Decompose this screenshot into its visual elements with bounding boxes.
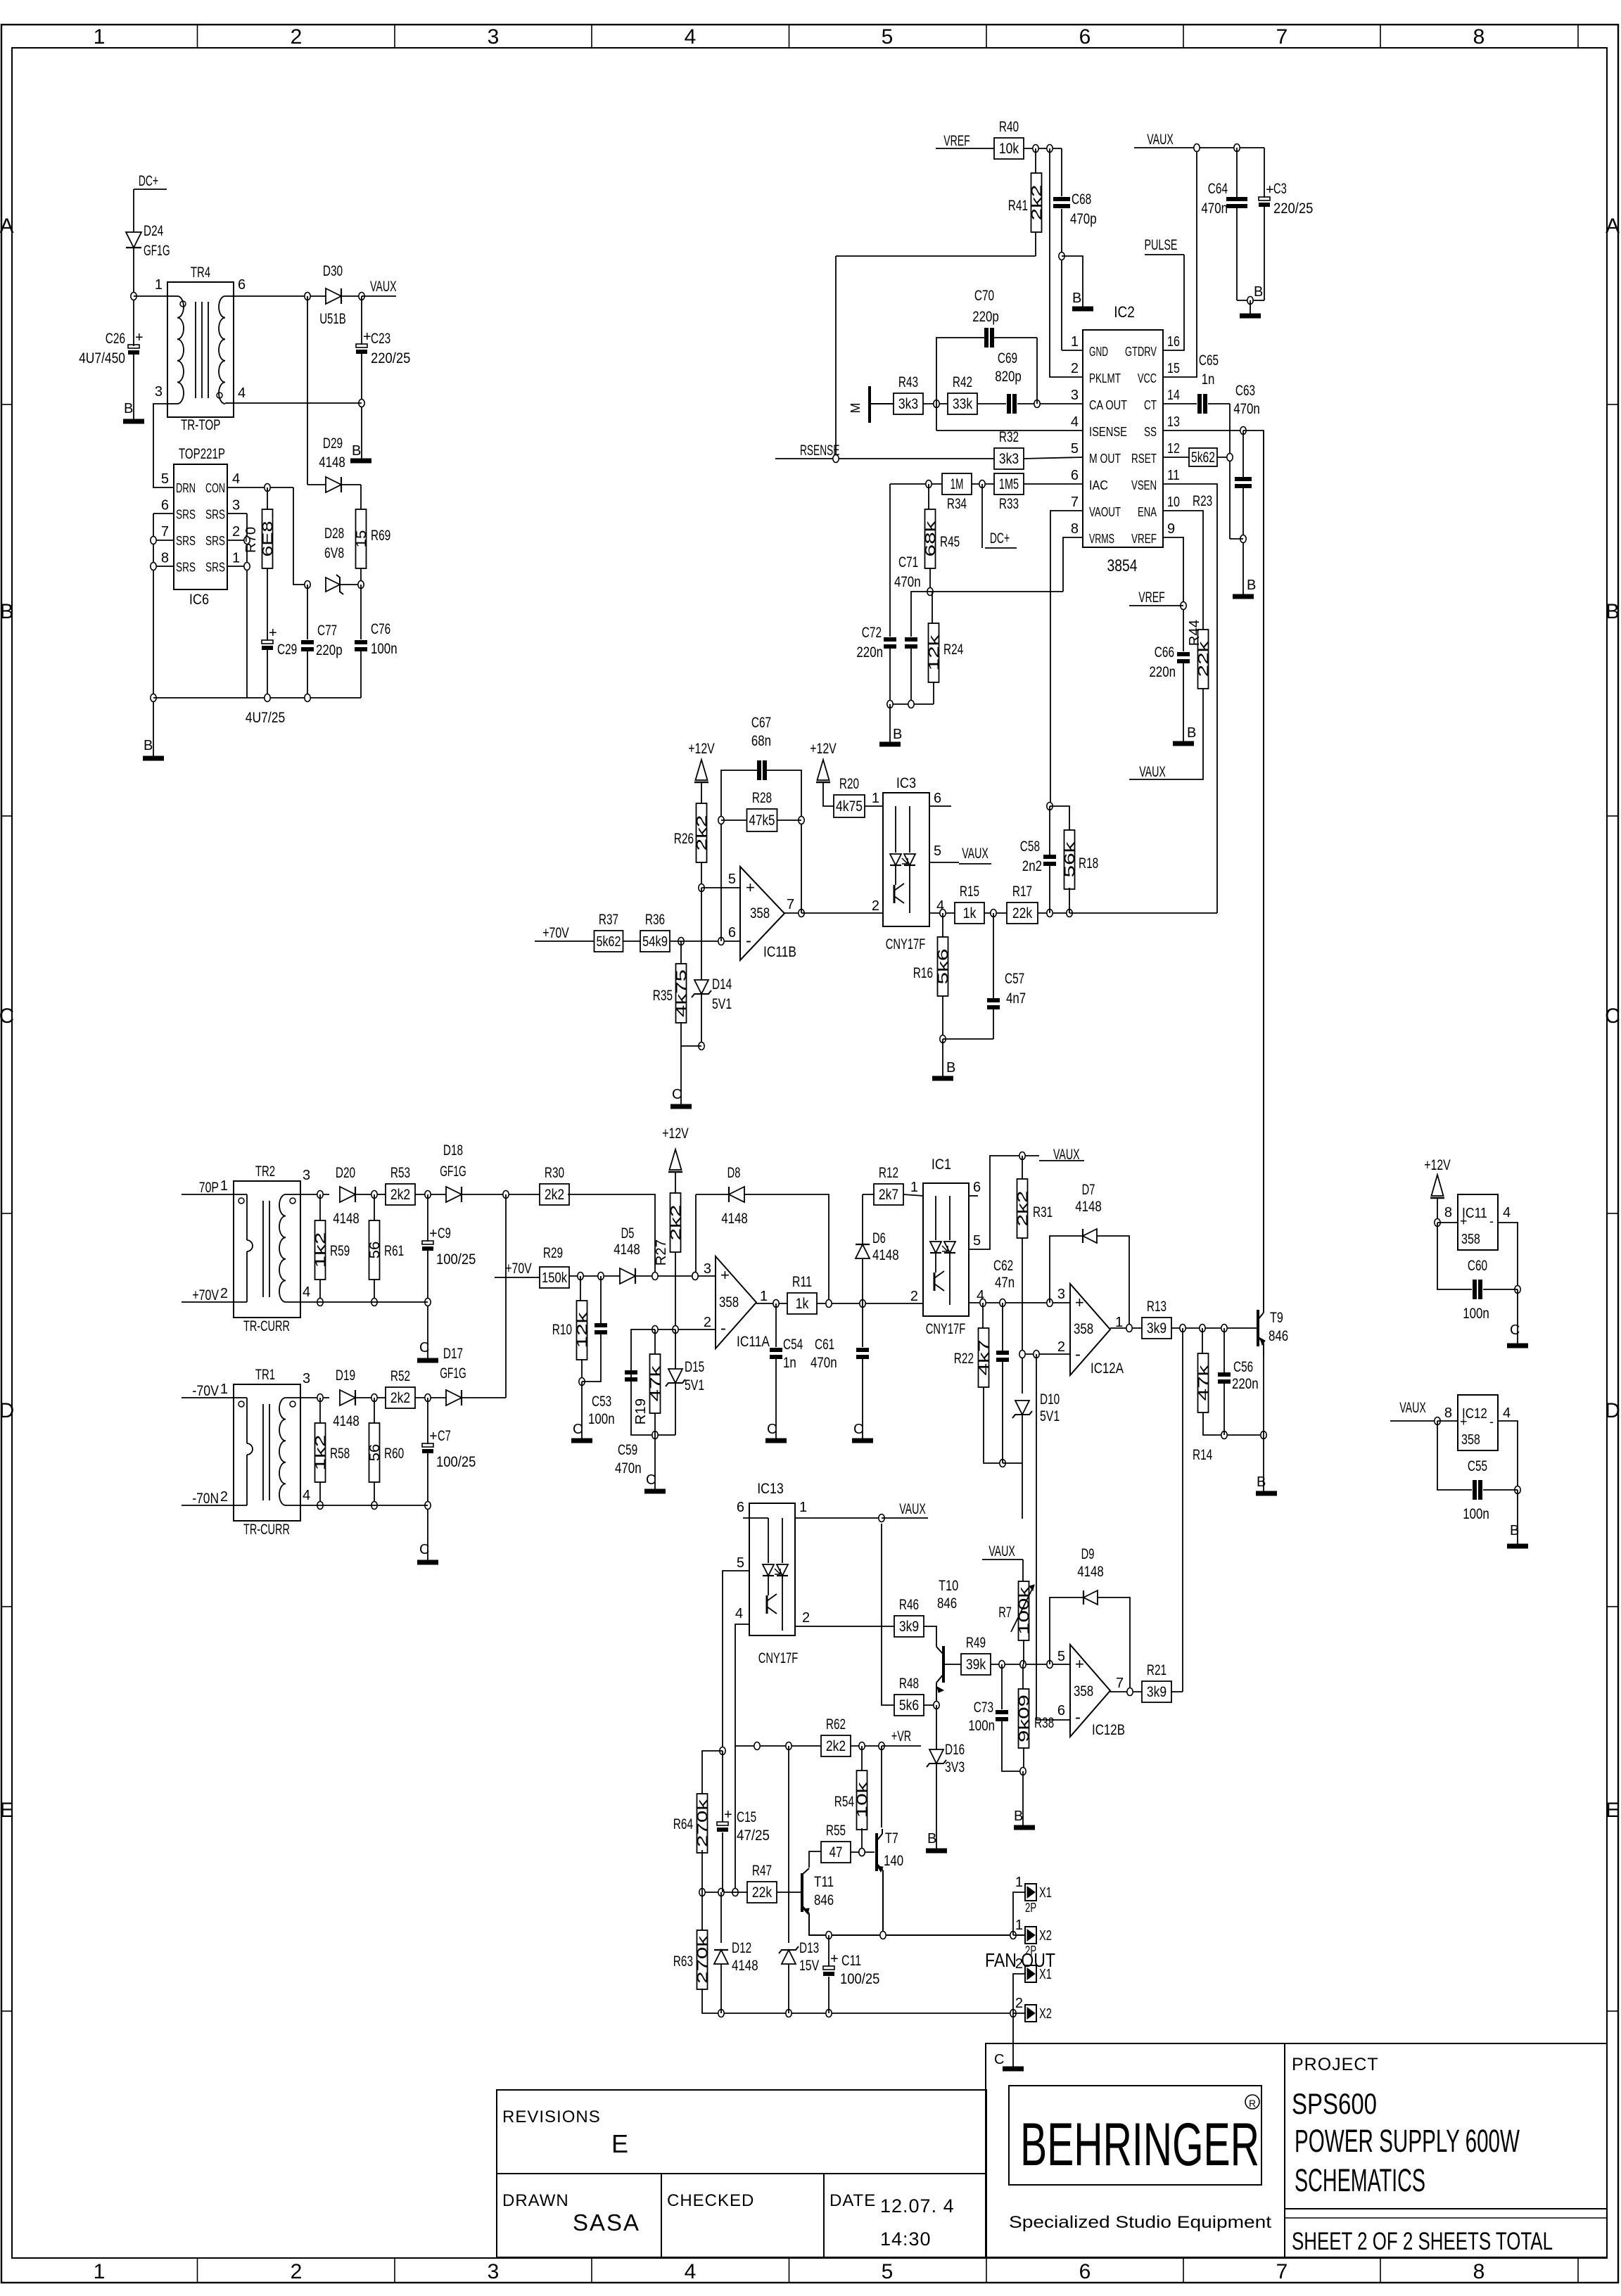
svg-text:-: - xyxy=(1075,1345,1081,1364)
svg-text:6: 6 xyxy=(238,277,246,293)
svg-text:2: 2 xyxy=(1015,1996,1023,2011)
svg-text:358: 358 xyxy=(1074,1683,1093,1699)
svg-text:4k7: 4k7 xyxy=(977,1340,992,1376)
svg-text:GND: GND xyxy=(1089,345,1108,359)
svg-text:R11: R11 xyxy=(792,1274,812,1290)
svg-text:+12V: +12V xyxy=(662,1125,689,1142)
svg-text:2n2: 2n2 xyxy=(1022,858,1042,874)
svg-text:PULSE: PULSE xyxy=(1145,237,1178,253)
svg-text:10: 10 xyxy=(1167,495,1180,510)
svg-text:820p: 820p xyxy=(995,369,1022,385)
svg-text:2k2: 2k2 xyxy=(1015,1191,1031,1227)
svg-text:D29: D29 xyxy=(323,435,343,452)
svg-text:R43: R43 xyxy=(898,374,918,390)
svg-text:GF1G: GF1G xyxy=(144,243,170,259)
svg-text:8: 8 xyxy=(1071,521,1079,537)
svg-text:SS: SS xyxy=(1144,425,1157,439)
svg-text:470n: 470n xyxy=(894,574,921,590)
svg-text:56: 56 xyxy=(367,1444,383,1462)
svg-text:2k2: 2k2 xyxy=(390,1187,410,1203)
svg-text:R42: R42 xyxy=(953,374,972,390)
svg-text:TR-CURR: TR-CURR xyxy=(243,1318,290,1334)
svg-text:358: 358 xyxy=(719,1294,739,1310)
svg-text:1: 1 xyxy=(1015,1918,1023,1933)
svg-text:5: 5 xyxy=(934,843,941,859)
svg-text:B: B xyxy=(0,600,14,623)
svg-text:DRAWN: DRAWN xyxy=(502,2191,569,2210)
svg-text:1: 1 xyxy=(220,1178,228,1194)
svg-text:4: 4 xyxy=(303,1488,310,1503)
svg-text:2: 2 xyxy=(910,1289,918,1304)
svg-text:SRS: SRS xyxy=(205,534,225,548)
svg-text:68k: 68k xyxy=(923,520,939,557)
svg-text:Specialized Studio Equipment: Specialized Studio Equipment xyxy=(1009,2213,1271,2232)
svg-text:C15: C15 xyxy=(737,1809,756,1825)
svg-text:D16: D16 xyxy=(945,1742,965,1758)
svg-text:7: 7 xyxy=(161,524,169,540)
svg-text:B: B xyxy=(946,1060,955,1076)
svg-text:4148: 4148 xyxy=(872,1247,899,1263)
svg-text:VAUX: VAUX xyxy=(370,279,397,295)
svg-text:2: 2 xyxy=(291,25,303,49)
svg-text:C: C xyxy=(672,1087,682,1102)
svg-text:R21: R21 xyxy=(1147,1662,1167,1678)
svg-text:100n: 100n xyxy=(371,641,398,657)
svg-text:R47: R47 xyxy=(752,1863,772,1879)
svg-text:47k: 47k xyxy=(1196,1364,1212,1401)
svg-text:68n: 68n xyxy=(751,733,771,749)
svg-text:R33: R33 xyxy=(999,496,1019,512)
svg-text:D9: D9 xyxy=(1081,1546,1095,1562)
svg-text:+12V: +12V xyxy=(1424,1157,1451,1173)
svg-text:220n: 220n xyxy=(1232,1376,1259,1392)
svg-text:CT: CT xyxy=(1144,398,1157,412)
svg-text:D: D xyxy=(1605,1399,1620,1422)
svg-text:B: B xyxy=(352,443,361,459)
svg-text:R32: R32 xyxy=(999,429,1019,445)
svg-text:7: 7 xyxy=(787,897,794,912)
svg-text:150k: 150k xyxy=(542,1270,568,1286)
svg-text:6: 6 xyxy=(737,1500,744,1515)
svg-text:VRMS: VRMS xyxy=(1089,532,1114,546)
svg-text:3: 3 xyxy=(232,498,240,514)
svg-text:33k: 33k xyxy=(953,396,973,412)
svg-text:C54: C54 xyxy=(783,1337,803,1353)
svg-text:CON: CON xyxy=(205,481,225,495)
svg-text:1M5: 1M5 xyxy=(999,476,1019,492)
svg-text:846: 846 xyxy=(814,1892,834,1908)
svg-text:E: E xyxy=(1606,1799,1620,1822)
svg-text:220/25: 220/25 xyxy=(371,350,410,366)
svg-text:ENA: ENA xyxy=(1138,505,1157,519)
svg-text:+: + xyxy=(1266,182,1274,198)
svg-text:B: B xyxy=(1014,1809,1023,1824)
svg-text:DATE: DATE xyxy=(829,2191,876,2210)
svg-text:X2: X2 xyxy=(1039,2006,1052,2022)
svg-text:3k9: 3k9 xyxy=(1147,1320,1167,1337)
svg-text:6: 6 xyxy=(1079,2260,1091,2283)
svg-text:3854: 3854 xyxy=(1107,556,1138,575)
svg-text:VREF: VREF xyxy=(1131,532,1157,546)
svg-text:R48: R48 xyxy=(899,1676,919,1692)
svg-text:C53: C53 xyxy=(592,1393,611,1410)
svg-text:5V1: 5V1 xyxy=(685,1377,704,1393)
svg-text:+70V: +70V xyxy=(505,1261,532,1277)
svg-text:100n: 100n xyxy=(968,1718,995,1734)
svg-text:7: 7 xyxy=(1276,25,1288,49)
svg-text:5k6: 5k6 xyxy=(899,1697,919,1714)
svg-text:+12V: +12V xyxy=(810,741,837,757)
svg-text:3: 3 xyxy=(704,1261,711,1277)
svg-text:5k6: 5k6 xyxy=(936,949,951,985)
svg-text:2k2: 2k2 xyxy=(694,815,710,851)
svg-text:B: B xyxy=(124,401,133,416)
svg-text:3: 3 xyxy=(303,1168,310,1183)
svg-text:IC12A: IC12A xyxy=(1091,1360,1124,1377)
svg-text:9k09: 9k09 xyxy=(1017,1695,1032,1742)
svg-text:C69: C69 xyxy=(998,350,1017,366)
svg-text:358: 358 xyxy=(1461,1432,1480,1448)
svg-text:3: 3 xyxy=(155,384,163,400)
svg-text:6E8: 6E8 xyxy=(260,521,276,557)
svg-text:R15: R15 xyxy=(960,884,979,900)
svg-text:15V: 15V xyxy=(799,1958,819,1974)
svg-text:270k: 270k xyxy=(695,1934,711,1984)
svg-text:4148: 4148 xyxy=(1075,1199,1102,1215)
svg-text:R69: R69 xyxy=(371,528,390,544)
svg-text:1: 1 xyxy=(1015,1875,1023,1890)
svg-text:B: B xyxy=(1606,600,1620,623)
svg-text:4148: 4148 xyxy=(333,1413,360,1429)
svg-text:C: C xyxy=(994,2052,1004,2067)
svg-text:220p: 220p xyxy=(316,642,343,658)
svg-text:SRS: SRS xyxy=(205,561,225,575)
svg-text:4: 4 xyxy=(238,385,246,401)
svg-text:R53: R53 xyxy=(390,1165,410,1181)
svg-text:1: 1 xyxy=(1071,334,1079,350)
svg-text:C76: C76 xyxy=(371,621,390,637)
svg-text:CNY17F: CNY17F xyxy=(886,936,925,952)
svg-text:GTDRV: GTDRV xyxy=(1125,345,1157,359)
svg-text:VREF: VREF xyxy=(943,133,970,149)
svg-text:R40: R40 xyxy=(999,119,1019,135)
svg-text:B: B xyxy=(144,738,153,753)
svg-text:100/25: 100/25 xyxy=(840,1971,879,1987)
svg-text:100n: 100n xyxy=(1463,1506,1489,1522)
svg-text:R44: R44 xyxy=(1187,620,1202,646)
svg-text:22k: 22k xyxy=(1012,905,1033,921)
svg-text:FAN OUT: FAN OUT xyxy=(985,1949,1055,1971)
svg-text:R12: R12 xyxy=(879,1165,898,1181)
svg-text:4148: 4148 xyxy=(614,1242,640,1258)
svg-text:2: 2 xyxy=(872,898,879,914)
svg-text:8: 8 xyxy=(1473,25,1485,49)
svg-text:C62: C62 xyxy=(993,1258,1013,1274)
svg-text:PROJECT: PROJECT xyxy=(1292,2055,1379,2074)
svg-text:5V1: 5V1 xyxy=(712,996,732,1012)
svg-text:6: 6 xyxy=(1071,468,1079,483)
svg-text:4k75: 4k75 xyxy=(674,969,689,1017)
svg-text:4: 4 xyxy=(685,2260,697,2283)
svg-text:SRS: SRS xyxy=(176,561,196,575)
svg-text:1: 1 xyxy=(232,551,240,566)
svg-text:DC+: DC+ xyxy=(139,173,158,189)
svg-text:140: 140 xyxy=(884,1853,903,1869)
svg-text:D28: D28 xyxy=(324,525,344,542)
svg-text:70P: 70P xyxy=(199,1180,219,1196)
svg-text:6: 6 xyxy=(1079,25,1091,49)
svg-text:IC1: IC1 xyxy=(932,1156,951,1173)
svg-text:9: 9 xyxy=(1167,521,1175,537)
svg-text:+70V: +70V xyxy=(192,1287,219,1303)
svg-text:6: 6 xyxy=(728,925,736,940)
svg-text:U51B: U51B xyxy=(319,311,346,327)
svg-text:470n: 470n xyxy=(1201,200,1228,217)
svg-text:10k: 10k xyxy=(855,1781,870,1818)
svg-text:-70N: -70N xyxy=(192,1491,219,1507)
svg-text:846: 846 xyxy=(937,1595,957,1612)
svg-text:R64: R64 xyxy=(673,1816,693,1832)
svg-text:6: 6 xyxy=(161,498,169,514)
svg-text:2k2: 2k2 xyxy=(390,1390,410,1406)
svg-text:A: A xyxy=(0,215,14,238)
svg-text:2: 2 xyxy=(232,524,240,540)
svg-text:2: 2 xyxy=(220,1489,228,1505)
svg-text:7: 7 xyxy=(1071,495,1079,510)
svg-text:6: 6 xyxy=(934,791,941,806)
svg-text:R13: R13 xyxy=(1147,1299,1167,1315)
svg-text:B: B xyxy=(927,1831,936,1847)
svg-text:2k2: 2k2 xyxy=(545,1187,564,1203)
svg-text:15: 15 xyxy=(354,530,369,548)
svg-text:470p: 470p xyxy=(1070,211,1097,227)
svg-text:220n: 220n xyxy=(856,644,883,661)
svg-text:220p: 220p xyxy=(972,309,999,325)
svg-text:358: 358 xyxy=(1074,1321,1093,1337)
svg-text:VAUX: VAUX xyxy=(899,1501,926,1517)
svg-text:6: 6 xyxy=(973,1180,981,1195)
svg-text:B: B xyxy=(1187,725,1196,741)
svg-text:3: 3 xyxy=(488,2260,500,2283)
svg-text:R70: R70 xyxy=(243,527,259,553)
svg-text:5V1: 5V1 xyxy=(1040,1408,1060,1424)
svg-text:2k2: 2k2 xyxy=(826,1738,846,1754)
svg-text:C61: C61 xyxy=(815,1337,834,1353)
svg-text:CNY17F: CNY17F xyxy=(926,1321,965,1337)
svg-text:+: + xyxy=(135,330,144,345)
svg-text:2: 2 xyxy=(1071,361,1079,376)
svg-text:R17: R17 xyxy=(1012,884,1032,900)
svg-text:SRS: SRS xyxy=(176,508,196,522)
svg-text:1k: 1k xyxy=(963,905,977,921)
svg-text:VAUX: VAUX xyxy=(989,1543,1015,1560)
svg-text:IC6: IC6 xyxy=(189,592,209,608)
svg-text:R58: R58 xyxy=(330,1446,350,1462)
svg-text:-: - xyxy=(1489,1415,1494,1429)
svg-text:R26: R26 xyxy=(674,831,694,847)
svg-text:DC+: DC+ xyxy=(990,530,1010,547)
svg-text:220/25: 220/25 xyxy=(1273,200,1313,217)
svg-text:12.07. 4: 12.07. 4 xyxy=(880,2195,955,2217)
svg-text:3: 3 xyxy=(303,1371,310,1386)
svg-text:C73: C73 xyxy=(974,1699,993,1716)
svg-text:3: 3 xyxy=(1057,1287,1065,1302)
svg-text:C71: C71 xyxy=(898,554,918,570)
svg-text:3k3: 3k3 xyxy=(898,396,918,412)
svg-text:R14: R14 xyxy=(1193,1447,1212,1463)
svg-text:M: M xyxy=(848,403,863,414)
svg-text:-: - xyxy=(1075,1708,1081,1727)
svg-text:4U7/25: 4U7/25 xyxy=(246,710,285,726)
svg-text:C70: C70 xyxy=(974,288,994,304)
svg-text:5: 5 xyxy=(737,1555,744,1571)
svg-text:GF1G: GF1G xyxy=(440,1365,466,1382)
svg-text:B: B xyxy=(1257,1474,1266,1490)
svg-text:-70V: -70V xyxy=(192,1383,219,1399)
svg-text:C77: C77 xyxy=(317,623,337,639)
svg-text:14:30: 14:30 xyxy=(880,2228,932,2250)
svg-text:SHEET 2 OF 2 SHEETS TOTAL: SHEET 2 OF 2 SHEETS TOTAL xyxy=(1292,2228,1553,2255)
svg-text:TR2: TR2 xyxy=(255,1163,275,1180)
svg-text:100/25: 100/25 xyxy=(436,1454,476,1470)
svg-text:TR4: TR4 xyxy=(191,264,210,281)
svg-text:7: 7 xyxy=(1276,2260,1288,2283)
svg-text:846: 846 xyxy=(1269,1328,1288,1344)
svg-text:TOP221P: TOP221P xyxy=(179,446,225,462)
svg-text:100n: 100n xyxy=(588,1411,615,1427)
svg-text:B: B xyxy=(1247,578,1256,593)
svg-text:1: 1 xyxy=(760,1289,768,1304)
svg-text:C: C xyxy=(767,1422,777,1437)
svg-text:R18: R18 xyxy=(1079,855,1098,872)
svg-text:VAUX: VAUX xyxy=(962,846,989,862)
svg-text:GF1G: GF1G xyxy=(440,1163,466,1180)
svg-text:C3: C3 xyxy=(1273,181,1287,197)
svg-text:4148: 4148 xyxy=(721,1211,748,1227)
svg-text:C: C xyxy=(853,1422,863,1437)
svg-text:IC11A: IC11A xyxy=(737,1334,770,1350)
svg-text:R54: R54 xyxy=(834,1794,854,1810)
svg-text:R35: R35 xyxy=(653,988,673,1004)
svg-text:39k: 39k xyxy=(966,1657,986,1673)
svg-text:5: 5 xyxy=(973,1233,981,1249)
svg-text:IAC: IAC xyxy=(1089,478,1108,492)
svg-text:1n: 1n xyxy=(783,1355,796,1371)
svg-text:ISENSE: ISENSE xyxy=(1089,425,1127,439)
svg-text:3: 3 xyxy=(488,25,500,49)
svg-text:+12V: +12V xyxy=(688,741,715,757)
svg-text:C65: C65 xyxy=(1199,352,1219,369)
svg-text:2k7: 2k7 xyxy=(879,1187,898,1203)
svg-text:2: 2 xyxy=(220,1286,228,1301)
svg-text:8: 8 xyxy=(1444,1205,1452,1220)
svg-text:4: 4 xyxy=(232,471,240,487)
svg-text:R28: R28 xyxy=(752,790,772,806)
svg-text:D6: D6 xyxy=(872,1230,886,1246)
svg-text:100n: 100n xyxy=(1463,1306,1489,1322)
svg-text:C58: C58 xyxy=(1020,838,1040,855)
svg-text:BEHRINGER: BEHRINGER xyxy=(1020,2111,1259,2179)
svg-text:5k62: 5k62 xyxy=(597,934,621,950)
svg-text:C: C xyxy=(573,1422,583,1437)
svg-text:R41: R41 xyxy=(1008,198,1028,214)
svg-text:4k75: 4k75 xyxy=(836,798,863,815)
svg-text:SCHEMATICS: SCHEMATICS xyxy=(1295,2162,1425,2198)
svg-text:D14: D14 xyxy=(712,976,732,993)
svg-text:D24: D24 xyxy=(144,223,163,239)
svg-text:5k62: 5k62 xyxy=(1191,449,1215,466)
svg-text:R52: R52 xyxy=(390,1368,410,1384)
svg-text:+: + xyxy=(429,1226,438,1242)
svg-text:5: 5 xyxy=(882,25,894,49)
svg-text:SRS: SRS xyxy=(205,508,225,522)
svg-text:56: 56 xyxy=(367,1242,383,1259)
svg-text:2: 2 xyxy=(291,2260,303,2283)
svg-text:VAUX: VAUX xyxy=(1147,132,1174,148)
svg-text:C23: C23 xyxy=(371,331,390,347)
svg-text:D17: D17 xyxy=(443,1346,463,1362)
svg-text:1k2: 1k2 xyxy=(313,1435,329,1471)
svg-text:VSEN: VSEN xyxy=(1131,478,1157,492)
svg-text:2k2: 2k2 xyxy=(668,1205,684,1241)
svg-text:SPS600: SPS600 xyxy=(1292,2087,1377,2120)
svg-text:C60: C60 xyxy=(1468,1258,1487,1274)
svg-text:D15: D15 xyxy=(685,1359,704,1375)
svg-text:R60: R60 xyxy=(384,1446,404,1462)
svg-text:358: 358 xyxy=(1461,1232,1480,1247)
svg-text:47k: 47k xyxy=(648,1365,663,1402)
svg-text:2P: 2P xyxy=(1025,1901,1036,1915)
svg-text:R61: R61 xyxy=(384,1243,404,1259)
svg-text:47k5: 47k5 xyxy=(749,812,775,829)
svg-text:D7: D7 xyxy=(1082,1182,1095,1198)
svg-text:C: C xyxy=(646,1472,656,1488)
svg-text:4148: 4148 xyxy=(333,1211,360,1227)
svg-text:8: 8 xyxy=(161,551,169,566)
svg-text:RSET: RSET xyxy=(1131,452,1157,466)
svg-text:4148: 4148 xyxy=(732,1958,758,1974)
svg-text:R31: R31 xyxy=(1033,1204,1053,1220)
svg-text:R29: R29 xyxy=(543,1245,563,1261)
svg-text:+: + xyxy=(1075,1655,1084,1673)
svg-text:1k2: 1k2 xyxy=(313,1232,329,1268)
svg-text:1: 1 xyxy=(94,2260,106,2283)
svg-text:TR-CURR: TR-CURR xyxy=(243,1522,290,1538)
svg-text:+70V: +70V xyxy=(542,925,569,941)
svg-text:+: + xyxy=(746,879,755,896)
svg-text:C: C xyxy=(419,1340,429,1356)
svg-text:+: + xyxy=(363,329,371,345)
svg-text:IC3: IC3 xyxy=(896,775,916,791)
svg-text:4148: 4148 xyxy=(1077,1564,1104,1580)
svg-text:1: 1 xyxy=(94,25,106,49)
svg-text:B: B xyxy=(1254,284,1263,300)
svg-text:A: A xyxy=(1606,215,1620,238)
svg-text:1: 1 xyxy=(155,277,163,293)
svg-text:SRS: SRS xyxy=(176,534,196,548)
svg-text:C29: C29 xyxy=(277,642,297,658)
svg-text:VAOUT: VAOUT xyxy=(1089,505,1121,519)
svg-text:CHECKED: CHECKED xyxy=(667,2191,754,2210)
svg-text:12k: 12k xyxy=(575,1311,590,1348)
svg-text:4: 4 xyxy=(1503,1405,1511,1421)
svg-text:4: 4 xyxy=(1071,414,1079,430)
svg-text:X1: X1 xyxy=(1039,1885,1052,1901)
svg-text:1n: 1n xyxy=(1202,371,1215,388)
svg-text:1: 1 xyxy=(799,1500,807,1515)
svg-text:IC12B: IC12B xyxy=(1092,1722,1125,1738)
svg-text:R10: R10 xyxy=(552,1322,572,1338)
